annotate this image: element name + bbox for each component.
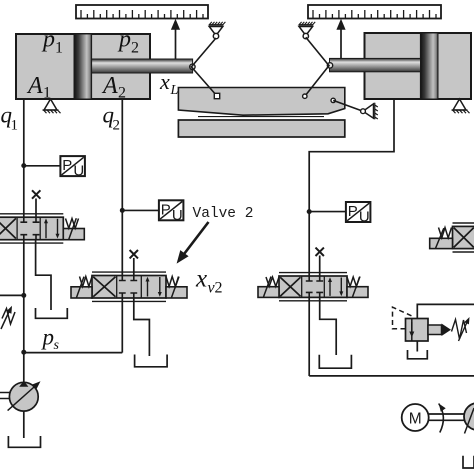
cylinder right piston <box>420 33 438 99</box>
pump P1 variable arrow <box>8 384 38 411</box>
svg-text:A: A <box>26 73 43 99</box>
wire valve1 plugged port B <box>35 199 37 218</box>
node ps junction <box>21 350 26 355</box>
cylinder right body <box>365 33 472 99</box>
pump P1 outlet triangle <box>19 381 28 387</box>
svg-text:x: x <box>195 266 207 293</box>
relief valve body <box>406 319 429 342</box>
svg-text:1: 1 <box>11 118 19 134</box>
valve V2 left solenoid <box>71 287 92 298</box>
cylinder left body <box>16 34 150 99</box>
svg-text:2: 2 <box>118 85 126 102</box>
ruler scale right <box>308 5 441 19</box>
tank T5 pump1 <box>8 436 40 447</box>
valve V3 body <box>279 276 347 297</box>
valve V3 right solenoid <box>347 287 368 298</box>
gap linkage fulcrum <box>363 104 374 118</box>
valve V4 crossed-flow square <box>454 228 474 248</box>
svg-text:p: p <box>41 27 55 53</box>
pressure transducer PU3 <box>346 202 371 222</box>
valve V4 left spring <box>439 228 452 238</box>
tank T6 pump2 <box>463 456 474 468</box>
relief valve spring <box>452 320 467 340</box>
plug X valve1 port B <box>32 190 40 198</box>
svg-text:2: 2 <box>113 118 121 134</box>
svg-text:2: 2 <box>131 40 139 57</box>
relief valve adjust arrow <box>459 320 469 341</box>
svg-text:L: L <box>170 83 179 98</box>
valve V1 closed-centre square <box>20 217 39 240</box>
mount ground left cylinder <box>44 99 57 110</box>
svg-text:1: 1 <box>55 40 63 57</box>
svg-text:P: P <box>62 157 72 174</box>
mount ground right cylinder <box>453 99 466 110</box>
displacement arrow right <box>340 29 342 58</box>
valve V2 right solenoid <box>166 287 187 298</box>
svg-text:U: U <box>73 163 84 180</box>
valve V2 crossed-flow square <box>93 277 115 297</box>
feedback lever right <box>305 37 329 96</box>
valve V3 right spring <box>347 277 360 286</box>
valve V3 left spring <box>266 277 279 286</box>
plug X valve2 port B <box>130 250 138 258</box>
node right-PU3 tap <box>307 209 312 214</box>
wire valve3 plugged port B <box>319 256 321 277</box>
valve V4 left solenoid <box>430 238 453 248</box>
valve V2 closed-centre square <box>119 276 137 299</box>
gap linkage pin on platen <box>331 98 335 102</box>
node q1-PU1 tap <box>21 163 26 168</box>
motor M circle <box>402 404 429 431</box>
valve V1 parallel-flow square <box>46 219 58 239</box>
platen upper block <box>178 88 344 116</box>
valve V1 body <box>0 217 63 240</box>
valve V2 right spring <box>166 277 179 287</box>
lever fulcrum right <box>299 27 313 36</box>
clipped variable arrow left edge <box>2 309 15 325</box>
relief valve poppet arrow <box>442 324 452 337</box>
cylinder left piston <box>74 34 92 99</box>
rod end pin left <box>190 64 195 69</box>
svg-text:P: P <box>348 203 358 220</box>
feedback lever left <box>191 38 217 96</box>
wire q2 line A2 to valve2 <box>121 99 123 353</box>
wire ps supply horizontal <box>24 352 123 354</box>
valve V1 proportional lines <box>0 214 63 243</box>
wire valve2 tank drain <box>134 298 150 356</box>
relief valve actuator stem <box>428 325 442 335</box>
valve V3 left solenoid <box>258 287 279 298</box>
pump P1 drive shaft <box>0 393 10 399</box>
svg-text:x: x <box>159 69 170 94</box>
wire valve2 plugged port B <box>133 258 135 276</box>
tank T2 <box>135 355 168 367</box>
valve V1 right solenoid <box>63 229 84 240</box>
valve V3 parallel-flow square <box>330 278 341 296</box>
wire q1 supply line A1 <box>23 99 25 382</box>
svg-text:M: M <box>409 411 422 428</box>
pump P1 circle <box>9 382 38 411</box>
valve V4 body <box>453 226 474 248</box>
svg-text:U: U <box>172 207 183 224</box>
cylinder left rod <box>92 59 193 73</box>
valve V1 crossed-flow square <box>0 218 16 238</box>
wire relief valve to supply <box>417 304 474 318</box>
svg-text:p: p <box>117 27 131 53</box>
pump P2 circle (clipped) <box>464 403 474 430</box>
svg-text:1: 1 <box>43 85 51 102</box>
valve V1 right spring <box>66 219 79 229</box>
svg-text:U: U <box>359 209 370 226</box>
rod end pin right <box>327 63 332 68</box>
tank T4 relief <box>408 350 428 359</box>
cylinder right rod <box>330 58 421 71</box>
node left feed junction <box>21 293 26 298</box>
wire valve3 tank drain <box>320 297 337 355</box>
wire from left edge pump to node <box>0 294 24 296</box>
relief valve pilot line (dashed) <box>393 307 412 329</box>
valve V2 proportional lines <box>92 272 166 301</box>
ruler scale left <box>76 5 208 19</box>
svg-text:Valve 2: Valve 2 <box>193 206 254 222</box>
rotation arrow <box>439 404 444 433</box>
valve V3 proportional lines <box>279 273 347 301</box>
motor shaft <box>429 414 464 420</box>
svg-text:s: s <box>54 338 60 353</box>
valve V3 closed-centre square <box>306 276 323 297</box>
svg-text:2: 2 <box>215 280 223 297</box>
wire valve1 tank drain <box>36 240 51 310</box>
annotation arrow to valve 2 <box>181 222 209 258</box>
valve V2 body <box>92 276 166 299</box>
svg-text:p: p <box>41 325 55 350</box>
platen lower block <box>178 120 344 137</box>
svg-text:P: P <box>161 201 171 218</box>
valve V3 crossed-flow square <box>280 277 300 296</box>
plug X valve3 port B <box>316 248 324 256</box>
gap linkage rod <box>333 100 363 111</box>
wire pump1 inlet from tank <box>23 411 25 438</box>
pump P2 variable arrow <box>465 408 474 434</box>
valve V2 left spring <box>80 277 93 287</box>
valve V4 proportional lines <box>453 223 474 252</box>
pressure transducer PU2 <box>159 200 184 220</box>
displacement arrow xL left <box>175 29 177 59</box>
tank T1 <box>36 308 68 318</box>
tank T3 <box>319 355 351 369</box>
node q2-PU2 tap <box>120 208 125 213</box>
pressure transducer PU1 <box>60 156 85 176</box>
wire relief valve drain <box>416 341 418 352</box>
platen gap line <box>198 116 324 118</box>
wire right cylinder to valve3 <box>309 99 474 376</box>
valve V2 parallel-flow square <box>148 277 160 297</box>
lever fulcrum left <box>209 27 223 36</box>
svg-text:A: A <box>101 73 118 99</box>
